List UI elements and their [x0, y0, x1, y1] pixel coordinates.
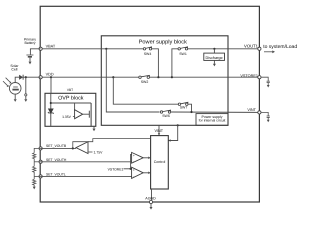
ground under discharge [213, 60, 216, 66]
switch SW1 [178, 47, 188, 50]
svg-text:VSTORE1: VSTORE1 [240, 74, 258, 78]
junction SW7 merge [190, 111, 192, 113]
svg-text:-: - [133, 159, 134, 163]
wire buffer to control [88, 139, 151, 142]
comparator B [132, 167, 144, 178]
svg-text:+: + [133, 153, 135, 157]
ground branch after diode [25, 77, 27, 94]
svg-text:1.75V: 1.75V [94, 150, 104, 154]
wire VSTORE1 to comparators [124, 168, 132, 170]
switch SW6 [160, 110, 170, 113]
wire SW4 to drop [152, 49, 159, 77]
svg-text:SW6: SW6 [162, 114, 170, 118]
power supply block box [101, 36, 228, 126]
switch SW4 [143, 47, 151, 50]
svg-text:SW2: SW2 [141, 80, 149, 84]
wire SW1 to VOUT1 [188, 48, 260, 50]
wire VDD to OVP [50, 77, 52, 93]
VDD node [39, 76, 42, 79]
comparator A [132, 152, 144, 163]
svg-text:to system/Load: to system/Load [263, 44, 297, 50]
svg-text:SW1: SW1 [179, 52, 187, 56]
wire SW7 down to SW6 row [188, 104, 192, 112]
svg-text:AGND: AGND [145, 196, 156, 200]
wire VDD row [41, 76, 139, 78]
wire into discharge box [213, 49, 215, 53]
transistor [89, 103, 91, 126]
junction on PSB bottom edge [177, 124, 179, 126]
OVP internal rail [50, 93, 52, 108]
svg-text:for internal circuit: for internal circuit [199, 119, 226, 123]
light arrows [3, 78, 10, 86]
junction SW1 riser [171, 76, 173, 78]
VINT node [258, 111, 261, 114]
wire SW2 to VSTORE1 [149, 76, 259, 78]
switch SW7 [178, 102, 188, 105]
svg-text:Battery: Battery [24, 41, 35, 45]
switch SW2 [139, 75, 150, 78]
comparator outputs [143, 157, 148, 159]
svg-text:+: + [133, 168, 135, 172]
capacitor at VINT [261, 112, 270, 119]
wire control to AGND [151, 189, 153, 201]
wire diode to VDD node [23, 76, 40, 78]
wire SW6 to VINT node [171, 111, 260, 113]
svg-text:Cell: Cell [11, 68, 17, 72]
discharge box [204, 53, 225, 60]
junction SW4 drop [157, 76, 159, 78]
wire VBAT drop to SW6 [106, 49, 159, 112]
buffer comparator 1.75V [76, 142, 88, 154]
zener diode [48, 109, 54, 126]
wire riser SW7 [113, 77, 178, 104]
node junction on VBAT row [105, 48, 107, 50]
svg-text:VINT: VINT [247, 108, 256, 112]
node junction OVP branch [50, 76, 52, 78]
capacitor at VSTORE1 [261, 77, 270, 85]
ground under AGND [150, 204, 152, 207]
VBAT node [39, 47, 42, 50]
1.75V ref [88, 151, 93, 153]
svg-text:1.35V: 1.35V [62, 115, 72, 119]
SET_VOUTH node [39, 160, 42, 163]
svg-text:Power supply block: Power supply block [139, 38, 187, 45]
svg-text:VOUT1: VOUT1 [244, 43, 259, 48]
arrow to system [264, 51, 273, 53]
svg-text:SW7: SW7 [180, 106, 188, 110]
svg-text:Control: Control [154, 160, 166, 164]
wire riser to SW1 [172, 49, 178, 77]
row2 wire [41, 161, 132, 163]
op-amp 1.35V [75, 110, 83, 119]
svg-text:VINT: VINT [154, 129, 163, 133]
control box [151, 136, 169, 189]
ground under OVP [93, 126, 95, 128]
svg-text:VBT: VBT [67, 88, 73, 92]
junction after diode [25, 76, 27, 78]
VSTORE1 node [258, 76, 261, 79]
row3 wire [41, 175, 132, 177]
SET_VOUTB node [39, 147, 42, 150]
wire VBAT row [41, 48, 144, 50]
wire VINT into control top [158, 125, 160, 135]
node junction SW7 riser [112, 76, 114, 78]
wire to control right edge [168, 125, 177, 140]
junction to discharge [213, 48, 215, 50]
svg-text:-: - [133, 174, 134, 178]
svg-text:SET_VOUTH: SET_VOUTH [46, 158, 67, 162]
row1 wire [41, 147, 76, 149]
wire opamp to transistor [83, 113, 90, 115]
svg-text:VSTORE1: VSTORE1 [108, 167, 124, 171]
solar cell circle [9, 77, 21, 99]
svg-text:SET_VOUTL: SET_VOUTL [46, 173, 66, 177]
svg-text:SW4: SW4 [144, 52, 152, 56]
AGND node [149, 200, 152, 203]
svg-text:OVP block: OVP block [58, 95, 84, 101]
svg-text:VBAT: VBAT [46, 45, 56, 49]
SET_VOUTL node [39, 175, 42, 178]
OVP block box [45, 93, 96, 126]
battery symbol [26, 49, 40, 62]
svg-text:VDD: VDD [46, 73, 54, 77]
VOUT1 node [258, 47, 261, 50]
diode [19, 75, 23, 80]
outer IC box [40, 6, 259, 202]
external divider chain [33, 148, 41, 186]
feedback loop [73, 142, 88, 149]
svg-text:SET_VOUTB: SET_VOUTB [46, 144, 67, 148]
power supply for internal circuit box [196, 114, 228, 126]
svg-text:Discharge: Discharge [206, 56, 223, 60]
